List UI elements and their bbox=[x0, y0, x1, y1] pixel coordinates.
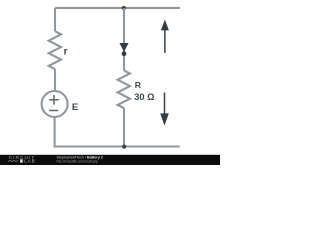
wire bottom rail bbox=[55, 145, 180, 147]
current arrow on middle branch bbox=[119, 43, 128, 52]
svg-text:r: r bbox=[64, 46, 68, 57]
svg-text:R: R bbox=[135, 80, 141, 90]
plus sign of E bbox=[49, 95, 59, 105]
svg-text:E: E bbox=[72, 102, 79, 113]
resistor R bbox=[118, 70, 130, 108]
node bottom junction bbox=[122, 145, 126, 149]
wire middle branch lower bbox=[123, 108, 125, 146]
svg-text:30 Ω: 30 Ω bbox=[134, 92, 154, 102]
wire left rail lower bbox=[54, 117, 57, 147]
resistor r bbox=[49, 31, 61, 69]
voltage source E bbox=[42, 91, 68, 117]
annotation arrow down (right side) bbox=[160, 93, 169, 126]
annotation arrow up (right side) bbox=[161, 20, 169, 53]
minus sign of E bbox=[49, 110, 58, 112]
watermark bar bbox=[0, 155, 220, 165]
watermark logo CIRCUIT LAB bbox=[8, 155, 36, 165]
wire middle branch upper bbox=[123, 8, 125, 70]
wire top rail bbox=[55, 7, 180, 9]
wire left rail middle bbox=[54, 69, 56, 91]
wire left rail upper bbox=[54, 8, 56, 31]
svg-text:LAB: LAB bbox=[24, 159, 36, 165]
svg-text:http://circuitlab.com/c/cshqdp: http://circuitlab.com/c/cshqdp bbox=[57, 159, 98, 163]
node top junction bbox=[122, 6, 126, 10]
